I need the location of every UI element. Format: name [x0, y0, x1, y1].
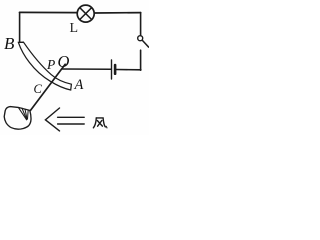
wire top-right horizontal [95, 12, 141, 14]
svg-text:B: B [4, 34, 15, 53]
wind plate: fan hatch [19, 108, 29, 120]
wire bottom-right horizontal [116, 69, 140, 71]
wind arrow (outline, pointing left) [45, 108, 84, 131]
wire right vertical lower [140, 50, 142, 70]
battery cell: long plate [111, 60, 113, 79]
pointer OC [30, 64, 65, 110]
switch S (open) [138, 36, 149, 47]
wire middle horizontal (pivot O to battery) [63, 68, 111, 70]
svg-text:C: C [34, 82, 43, 96]
svg-text:L: L [70, 21, 79, 36]
svg-text:P: P [46, 57, 55, 72]
wire right vertical upper [140, 13, 142, 36]
label feng (wind) hand-drawn [93, 118, 107, 128]
lamp L1 [77, 5, 94, 22]
svg-text:O: O [58, 52, 70, 71]
resistor arc band B..A [18, 42, 71, 90]
svg-text:A: A [74, 77, 84, 93]
wind plate: blob outline [4, 107, 31, 130]
battery cell: short thick plate [114, 65, 117, 74]
wire top-left horizontal [20, 11, 77, 13]
wire left vertical [19, 12, 21, 41]
